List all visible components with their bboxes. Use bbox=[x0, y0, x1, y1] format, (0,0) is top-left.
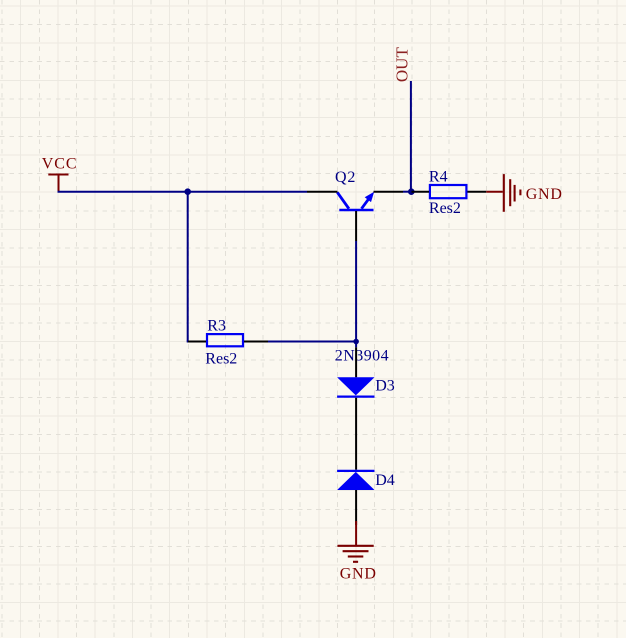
transistor Q2 designator bbox=[335, 169, 356, 186]
power port VCC bbox=[42, 156, 78, 192]
svg-text:R4: R4 bbox=[429, 168, 448, 185]
pin D3 cathode to pin D4 cathode bbox=[355, 398, 357, 470]
pin R4.2 bbox=[467, 191, 486, 193]
pin Q2 base bbox=[355, 211, 357, 241]
junction node (rail to R3 branch) bbox=[184, 188, 191, 195]
wire rail down to R3 bbox=[187, 192, 206, 342]
junction node (base / diode) bbox=[353, 339, 359, 345]
svg-text:GND: GND bbox=[340, 565, 377, 582]
wire emitter to OUT node bbox=[403, 191, 412, 193]
svg-text:Res2: Res2 bbox=[429, 200, 461, 217]
ground GND (bottom power port) bbox=[337, 521, 376, 582]
pin R4.1 bbox=[412, 191, 430, 193]
svg-text:Q2: Q2 bbox=[335, 169, 356, 186]
pin R3.1 bbox=[188, 341, 206, 343]
svg-text:OUT: OUT bbox=[392, 47, 411, 83]
wire VCC rail bbox=[58, 191, 308, 193]
junction node OUT bbox=[408, 188, 415, 195]
svg-text:D4: D4 bbox=[375, 472, 395, 489]
pin D3 anode bbox=[355, 347, 357, 377]
svg-text:GND: GND bbox=[526, 186, 563, 203]
svg-text:R3: R3 bbox=[207, 318, 226, 335]
wire OUT vertical bbox=[410, 81, 412, 192]
diode D4 bbox=[337, 471, 395, 490]
svg-text:2N3904: 2N3904 bbox=[335, 348, 389, 365]
wire R3 to Q2 base node bbox=[268, 341, 356, 343]
resistor R4 bbox=[429, 168, 467, 217]
wire base node to D3 bbox=[355, 342, 357, 348]
pin R3.2 bbox=[244, 341, 268, 343]
resistor R3 bbox=[205, 318, 243, 368]
svg-text:D3: D3 bbox=[375, 378, 395, 395]
pin Q2 emitter bbox=[374, 191, 404, 193]
svg-text:Res2: Res2 bbox=[205, 350, 237, 367]
diode D3 bbox=[337, 377, 395, 396]
pin D4 anode bbox=[355, 490, 357, 525]
net label OUT bbox=[392, 47, 411, 83]
pin Q2 collector bbox=[307, 191, 338, 193]
svg-text:VCC: VCC bbox=[42, 156, 78, 173]
transistor Q2 comment 2N3904 bbox=[335, 348, 389, 365]
transistor Q2 body bbox=[337, 192, 374, 210]
ground GND (right power port) bbox=[486, 174, 562, 212]
wire base to node bbox=[355, 241, 357, 342]
